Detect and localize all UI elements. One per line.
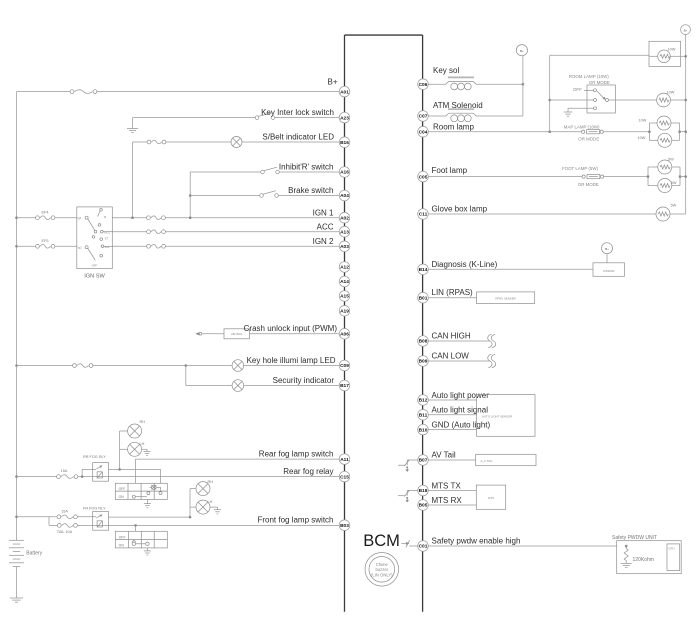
BCM module body (connector side lines) (344, 35, 346, 612)
wire IGN1 to BCM (112, 217, 147, 219)
svg-text:IG2: IG2 (105, 245, 110, 249)
pin B08 (418, 336, 429, 347)
wire security indicator branch (185, 366, 187, 386)
wire room switch common to lamp (550, 99, 594, 101)
svg-text:OR MODE: OR MODE (589, 80, 610, 85)
connector (map lamp) (582, 130, 585, 133)
wire key hole illumi lamp (17, 365, 73, 367)
front fog switch contacts (132, 542, 135, 545)
svg-text:10W: 10W (638, 136, 646, 140)
svg-text:Ig1: Ig1 (78, 216, 82, 220)
fuse TAIL 10A (front fog) (57, 524, 61, 528)
room lamp unit box (649, 41, 681, 66)
lamp room 10W (658, 50, 671, 63)
lamp front fog RH (196, 482, 210, 496)
pin A04 (339, 190, 350, 201)
svg-text:RPAS SENSER: RPAS SENSER (495, 297, 515, 301)
wire S/Belt indicator LED (133, 141, 148, 143)
pin A02 (339, 212, 350, 223)
lamp map LH 10W (658, 133, 672, 147)
switch (brake) (260, 194, 264, 198)
fuse (ACC) (147, 230, 151, 234)
node rear fog rail tap (15, 475, 18, 478)
svg-text:A19: A19 (340, 309, 349, 315)
wire Inhibit R switch (190, 171, 261, 173)
battery supply rail (16, 92, 18, 541)
pin A06 (339, 329, 350, 340)
node S/Belt tap on IGN1 (131, 216, 134, 219)
lamp S/Belt indicator LED (231, 137, 242, 148)
pin A01 (339, 86, 350, 97)
svg-text:15A: 15A (61, 509, 68, 513)
rear fog switch box (115, 483, 167, 499)
svg-text:RH: RH (140, 420, 146, 424)
MTS box (476, 485, 505, 509)
svg-text:LIN (RPAS): LIN (RPAS) (432, 288, 474, 297)
svg-text:15A: 15A (61, 469, 68, 473)
svg-text:A04: A04 (340, 193, 349, 199)
svg-text:B: B (104, 215, 106, 219)
svg-text:ST: ST (105, 237, 109, 241)
lamp key hole illumi LED (232, 360, 244, 372)
resistor 120Kohm (625, 545, 628, 548)
svg-text:ON: ON (119, 544, 125, 548)
node keyhole rail tap (15, 364, 18, 367)
wire auto light signal (428, 414, 476, 416)
fuse EF5 (IGN2) (36, 244, 40, 248)
wire front fog lamps to relay output (190, 488, 196, 490)
node room lamp branch (548, 130, 551, 133)
svg-text:A15: A15 (340, 294, 349, 300)
svg-text:A14: A14 (340, 279, 349, 285)
svg-text:TAIL 10A: TAIL 10A (57, 530, 73, 534)
break symbol (CAN LOW) (488, 354, 492, 368)
fuse 15A (front fog) (57, 515, 61, 519)
ground (key interlock) (127, 127, 138, 129)
svg-text:Key hole illumi lamp LED: Key hole illumi lamp LED (247, 356, 336, 365)
pin C01 (418, 541, 429, 552)
svg-text:A11: A11 (340, 457, 349, 463)
wire diagnosis K-line (428, 268, 593, 270)
pin A15 (339, 291, 350, 302)
wire front fog feed 15A (17, 516, 57, 518)
lamp room mode 10W (657, 93, 671, 107)
node IGN1 rail tap (15, 216, 18, 219)
ignition switch IGN SW (77, 207, 113, 269)
svg-text:MTS TX: MTS TX (432, 481, 462, 490)
svg-text:B18: B18 (419, 488, 428, 494)
pin C07 (418, 111, 429, 122)
svg-text:CAN LOW: CAN LOW (432, 352, 470, 361)
lamp foot RH 5W (658, 160, 672, 174)
svg-text:Diagnosis (K-Line): Diagnosis (K-Line) (432, 260, 498, 269)
svg-text:A23: A23 (340, 115, 349, 121)
wire ATM solenoid (428, 115, 446, 117)
wire rear fog lamps to relay output (120, 430, 128, 432)
node security branch (185, 364, 188, 367)
svg-text:BCM: BCM (363, 532, 400, 550)
ground (battery) (10, 597, 23, 599)
svg-text:B09: B09 (419, 359, 428, 365)
lamp rear fog RH (128, 424, 142, 438)
svg-text:Crash unlock input (PWM): Crash unlock input (PWM) (244, 324, 338, 333)
wire LIN RPAS (428, 297, 476, 299)
wire foot lamps to rail (680, 176, 686, 178)
safety PWDW unit box (617, 541, 682, 574)
node front fog switch tap (134, 524, 137, 527)
lamp glove box 5W (656, 207, 670, 221)
svg-text:A06: A06 (340, 332, 349, 338)
KW2000 box (593, 263, 624, 277)
svg-text:B01: B01 (419, 295, 428, 301)
svg-text:GND (Auto light): GND (Auto light) (432, 421, 491, 430)
svg-text:S/Belt indicator LED: S/Belt indicator LED (262, 132, 334, 141)
svg-text:IGN 1: IGN 1 (313, 208, 334, 217)
svg-text:Inhibit'R' switch: Inhibit'R' switch (279, 162, 334, 171)
ground (front fog switch) (146, 548, 148, 551)
wire room mode lamp to rail (670, 99, 685, 101)
pin C15 (339, 471, 350, 482)
svg-text:Battery: Battery (26, 551, 42, 557)
svg-text:B03: B03 (340, 523, 349, 529)
lamp security indicator (232, 380, 244, 392)
wire key sol (428, 83, 446, 85)
pin B14 (418, 264, 429, 275)
wire map lamps to rail (680, 131, 686, 133)
arrow (crash unlock from air bag) (195, 332, 199, 335)
svg-text:MTS: MTS (488, 496, 494, 500)
wire MTS RX (428, 504, 476, 506)
B+ terminal (KW2000) (602, 243, 613, 254)
svg-text:C15: C15 (340, 474, 349, 480)
ground (rear fog LH) (142, 448, 147, 450)
break symbol (CAN HIGH) (488, 334, 492, 348)
map lamp pair bracket (648, 123, 650, 140)
pin A19 (339, 306, 350, 317)
chime buzzer symbol (LIN ONLY) (365, 553, 399, 587)
pin C09 (339, 360, 350, 371)
svg-text:buzzer: buzzer (376, 567, 389, 572)
node front fog rail tap (15, 516, 18, 519)
wire safety pwdw enable high (428, 545, 616, 547)
lamp map RH 10W (657, 116, 671, 130)
svg-text:Safety pwdw enable high: Safety pwdw enable high (432, 536, 521, 545)
wire IGN2 to BCM (112, 245, 147, 247)
svg-text:5W: 5W (671, 181, 677, 185)
pin B11 (418, 410, 429, 421)
svg-text:A16: A16 (340, 170, 349, 176)
wire B+ feed (17, 91, 71, 93)
ground (rear fog switch) (146, 499, 148, 503)
svg-text:LH: LH (208, 500, 213, 504)
svg-text:MAP LAMP (10W): MAP LAMP (10W) (564, 124, 600, 129)
pin A16 (339, 167, 350, 178)
fuse (IGN1 to BCM) (147, 216, 151, 220)
svg-text:ACC: ACC (104, 230, 110, 234)
svg-text:B+: B+ (327, 78, 337, 87)
svg-text:B10: B10 (419, 427, 428, 433)
RPAS sensor box (477, 292, 535, 304)
pin A13 (339, 226, 350, 237)
pin A12 (339, 262, 350, 273)
pin A03 (339, 241, 350, 252)
svg-text:OFF: OFF (573, 87, 582, 92)
wire S/Belt branch down to IGN1 (132, 142, 134, 218)
solenoid ATM (448, 108, 474, 110)
wire foot lamp (428, 176, 582, 178)
pin B18 (418, 485, 429, 496)
svg-text:OR MODE: OR MODE (578, 182, 599, 187)
wire key sol to B+ (522, 83, 525, 86)
svg-text:10W: 10W (668, 48, 676, 52)
pin C11 (418, 209, 429, 220)
air bag unit box (224, 329, 250, 339)
wire MTS TX (428, 490, 476, 492)
svg-text:RH: RH (208, 480, 214, 484)
ground (front fog LH) (210, 506, 218, 508)
svg-text:B17: B17 (340, 383, 349, 389)
svg-text:EF5: EF5 (42, 239, 49, 243)
AV tail box (476, 454, 536, 465)
svg-text:B12: B12 (419, 398, 428, 404)
svg-text:A_V TAIL: A_V TAIL (481, 459, 493, 463)
svg-text:FR FOG RLY: FR FOG RLY (83, 506, 106, 510)
svg-text:Brake switch: Brake switch (288, 186, 333, 195)
svg-text:KW2000: KW2000 (603, 269, 614, 273)
pin B17 (339, 380, 350, 391)
svg-text:10W: 10W (667, 90, 675, 94)
wire room lamp riser (549, 55, 551, 131)
svg-text:A03: A03 (340, 244, 349, 250)
room lamp switch contacts (594, 89, 597, 92)
node brake tap (189, 194, 192, 197)
svg-text:Safety PWDW UNIT: Safety PWDW UNIT (612, 535, 657, 541)
svg-text:10W: 10W (639, 118, 647, 122)
switch (Inhibit R) (261, 170, 265, 174)
pin B09 (418, 356, 429, 367)
svg-text:LH: LH (140, 442, 145, 446)
svg-text:(LIN ONLY): (LIN ONLY) (371, 572, 393, 577)
svg-text:C06: C06 (419, 82, 428, 88)
wire rear fog feed (17, 476, 57, 478)
fuse 15A (rear fog) (57, 475, 61, 479)
svg-text:ROOM LAMP (10W): ROOM LAMP (10W) (569, 74, 609, 79)
svg-text:120Kohm: 120Kohm (633, 557, 654, 563)
svg-text:Foot lamp: Foot lamp (432, 166, 468, 175)
node inhibit tap on IGN1 (189, 216, 192, 219)
svg-text:C07: C07 (419, 114, 428, 120)
wire battery to ground (16, 567, 18, 598)
svg-text:B11: B11 (419, 413, 428, 419)
svg-text:A13: A13 (340, 229, 349, 235)
wire rear fog lamp switch to BCM (135, 458, 339, 460)
svg-text:B14: B14 (419, 267, 428, 273)
pin B01 (418, 292, 429, 303)
pin B05 (418, 500, 429, 511)
solenoid key sol (448, 76, 474, 78)
ground (room lamp switch) (564, 111, 573, 113)
pin C05 (418, 171, 429, 182)
svg-text:Rear fog relay: Rear fog relay (283, 467, 333, 476)
svg-text:IGN 2: IGN 2 (313, 237, 334, 246)
pin A23 (339, 112, 350, 123)
svg-text:C11: C11 (419, 212, 428, 218)
fuse (key hole illumi) (73, 364, 77, 368)
arrow (AV tail) (407, 459, 418, 461)
wire inhibit branch down (189, 172, 191, 218)
fuse (IGN2 to BCM) (147, 244, 151, 248)
pin C04 (418, 126, 429, 137)
svg-text:Key Inter lock switch: Key Inter lock switch (261, 108, 334, 117)
svg-text:ACC: ACC (317, 222, 334, 231)
CPU box (667, 544, 680, 571)
svg-text:B07: B07 (419, 458, 428, 464)
svg-text:5W: 5W (671, 203, 677, 207)
svg-text:AUTO LIGHT SENSOR: AUTO LIGHT SENSOR (482, 415, 512, 419)
pin B12 (418, 395, 429, 406)
arrow (safety pwdw) (401, 542, 406, 544)
front fog switch box (115, 531, 167, 548)
svg-text:OFF: OFF (92, 263, 98, 267)
svg-text:B05: B05 (419, 503, 428, 509)
svg-text:CPU: CPU (669, 547, 675, 551)
ground (safety pwdw) (621, 563, 632, 565)
lamp front fog LH (196, 500, 210, 514)
svg-text:OR MODE: OR MODE (578, 137, 599, 142)
fuse (S/Belt) (147, 140, 151, 144)
fuse (B+) (70, 90, 74, 94)
svg-text:Glove box lamp: Glove box lamp (432, 204, 488, 213)
wire front fog tail feed (48, 517, 50, 526)
svg-text:Key sol: Key sol (433, 66, 459, 75)
svg-text:Auto light power: Auto light power (432, 391, 490, 400)
pin C06 (418, 79, 429, 90)
pin B16 (339, 137, 350, 148)
svg-text:FOOT LAMP (5W): FOOT LAMP (5W) (562, 166, 598, 171)
svg-text:A02: A02 (340, 215, 349, 221)
wire B+ to KW2000 (606, 254, 608, 263)
svg-text:C04: C04 (419, 129, 428, 135)
wire auto light power (428, 399, 476, 401)
svg-text:B08: B08 (419, 339, 428, 345)
pin A14 (339, 276, 350, 287)
svg-text:IGN SW: IGN SW (84, 274, 105, 280)
B+ terminal (top right) (681, 25, 691, 35)
svg-text:OFF: OFF (119, 487, 126, 491)
svg-text:CAN HIGH: CAN HIGH (432, 332, 471, 341)
pin A11 (339, 454, 350, 465)
svg-text:Front fog lamp switch: Front fog lamp switch (257, 516, 333, 525)
svg-text:Security indicator: Security indicator (273, 376, 335, 385)
svg-text:AV Tail: AV Tail (432, 450, 456, 459)
lamp rear fog LH (128, 442, 142, 456)
wire CAN HIGH (428, 340, 489, 342)
svg-text:5W: 5W (668, 158, 674, 162)
wire AV tail (428, 459, 475, 461)
svg-text:OFF: OFF (119, 535, 126, 539)
wire IGN2 from rail (17, 245, 36, 247)
svg-text:Ig2: Ig2 (78, 246, 82, 250)
B+ supply right rail (685, 35, 687, 215)
rear fog switch contacts (132, 495, 135, 498)
fuse EF4 (IGN1) (36, 216, 40, 220)
svg-text:ON: ON (119, 495, 125, 499)
wire crash unlock input (202, 333, 224, 335)
auto light sensor box (477, 395, 535, 437)
switch (key interlock) (255, 116, 259, 120)
svg-text:B+: B+ (520, 49, 524, 53)
svg-text:AIR BAG: AIR BAG (231, 332, 243, 336)
wire relay switch feed branch (81, 475, 84, 478)
wire room lamp unit to rail (649, 55, 658, 57)
room lamp switch box (587, 85, 615, 113)
svg-text:EF4: EF4 (42, 211, 49, 215)
wire room lamp (428, 131, 581, 133)
svg-text:Rear fog lamp switch: Rear fog lamp switch (259, 450, 334, 459)
pin B03 (339, 520, 350, 531)
svg-text:C05: C05 (419, 174, 428, 180)
node IGN2 rail tap (15, 245, 18, 248)
wire room switch to ground (568, 107, 594, 109)
foot lamp pair bracket (647, 167, 649, 186)
svg-text:RR FOG RLY: RR FOG RLY (83, 455, 106, 459)
svg-text:C09: C09 (340, 363, 349, 369)
svg-text:MTS RX: MTS RX (432, 496, 463, 505)
svg-text:C01: C01 (419, 544, 428, 550)
wire to ground (key interlock) (132, 118, 134, 129)
svg-text:Room lamp: Room lamp (433, 122, 474, 131)
wire brake switch (190, 195, 260, 197)
wire IGN1 from rail (17, 217, 36, 219)
svg-text:B16: B16 (340, 140, 349, 146)
pin B10 (418, 424, 429, 435)
wire CAN LOW (428, 360, 489, 362)
svg-text:A01: A01 (340, 89, 349, 95)
connector (foot lamp) (582, 175, 585, 178)
wire auto light GND (428, 429, 476, 431)
wire rear relay output to lamps and switch (109, 468, 161, 470)
svg-text:A12: A12 (340, 265, 349, 271)
svg-text:Auto light signal: Auto light signal (432, 406, 489, 415)
svg-text:ATM Solenoid: ATM Solenoid (433, 101, 483, 110)
wire glove box lamp (428, 213, 656, 215)
pin B07 (418, 455, 429, 466)
wire key interlock switch (133, 117, 256, 119)
B+ terminal (solenoids) (516, 45, 527, 56)
svg-text:B+: B+ (605, 247, 609, 251)
svg-text:B+: B+ (684, 28, 688, 32)
battery (9, 539, 24, 541)
wire ACC to BCM (112, 231, 147, 233)
wire front relay output to lamps (109, 516, 191, 518)
lamp foot LH 5W (658, 179, 672, 193)
arrow (MTS) (407, 490, 418, 492)
